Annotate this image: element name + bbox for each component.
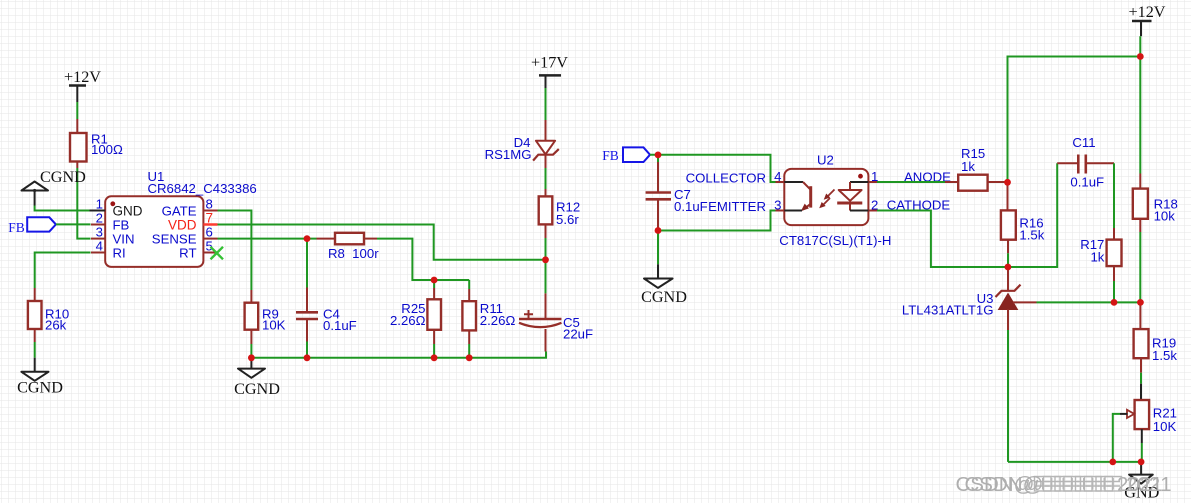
svg-text:0.1uF: 0.1uF: [674, 199, 708, 214]
node junction R18/R19: [1137, 299, 1144, 306]
wire FB to collector/C7: [650, 155, 776, 182]
wire C11 to R17: [1113, 163, 1115, 228]
svg-text:4: 4: [96, 239, 103, 254]
LED inside U2: [837, 182, 868, 211]
U1 pin 6 SENSE: [152, 225, 218, 247]
transistor Q inside U2: [784, 182, 810, 211]
ground rail wire (left section): [251, 352, 546, 358]
wire R12 to node: [545, 238, 547, 260]
ground rail wire (right section): [1008, 461, 1141, 463]
node junction VDD/R12/C5: [542, 256, 549, 263]
svg-text:CGND: CGND: [641, 288, 687, 306]
U2 pin 3 EMITTER: [708, 197, 784, 214]
resistor R19: [1134, 302, 1178, 372]
svg-text:1.5k: 1.5k: [1019, 228, 1044, 243]
svg-text:2.26Ω: 2.26Ω: [480, 313, 516, 328]
svg-text:22uF: 22uF: [563, 327, 593, 342]
svg-text:5: 5: [206, 239, 213, 254]
resistor R15: [945, 146, 1008, 191]
svg-text:CT817C(SL)(T1)-H: CT817C(SL)(T1)-H: [779, 233, 891, 248]
U1 pin 4 RI: [91, 239, 126, 261]
svg-text:CGND: CGND: [234, 380, 280, 398]
svg-text:100Ω: 100Ω: [91, 142, 123, 157]
svg-text:2.26Ω: 2.26Ω: [390, 313, 426, 328]
svg-text:C11: C11: [1072, 135, 1095, 150]
svg-text:8: 8: [206, 197, 213, 212]
wire +12V to R18: [1139, 57, 1141, 174]
svg-text:RI: RI: [113, 245, 126, 260]
U1 pin 3 VIN: [91, 225, 134, 247]
ground CGND (under C7): [641, 264, 687, 306]
wire R8 to R25/R11: [377, 239, 469, 280]
wire C7 to CGND: [657, 231, 659, 265]
resistor R12: [539, 189, 581, 238]
svg-text:1k: 1k: [1090, 250, 1104, 265]
wire ANODE to R15: [877, 181, 945, 183]
resistor R16: [1001, 182, 1045, 253]
svg-text:GND: GND: [113, 203, 143, 218]
svg-text:7: 7: [206, 211, 214, 226]
capacitor C11: [1057, 135, 1114, 190]
power +17V: [531, 54, 568, 89]
node junction wiper/rail: [1109, 459, 1116, 466]
ground CGND (bottom middle): [234, 358, 280, 398]
svg-text:1: 1: [96, 197, 103, 212]
wire CATHODE to R16 node: [877, 163, 1057, 267]
svg-text:0.1uF: 0.1uF: [323, 318, 357, 333]
svg-text:CSDN@: CSDN@: [965, 473, 1044, 496]
wire R21 bottom: [1141, 429, 1143, 443]
wire U3 ref to R17/R19: [1037, 301, 1141, 303]
svg-text:+17V: +17V: [531, 54, 568, 72]
wire R10 to CGND: [34, 342, 36, 358]
node junction R16 bottom: [1005, 264, 1012, 271]
capacitor C4: [296, 239, 357, 342]
light arrows inside U2: [819, 190, 834, 209]
svg-text:FB: FB: [113, 217, 130, 232]
svg-text:EMITTER: EMITTER: [708, 199, 766, 214]
resistor R10: [28, 288, 69, 342]
U1 pin 7 VDD: [168, 211, 218, 233]
svg-text:26k: 26k: [45, 317, 67, 332]
svg-text:10k: 10k: [1154, 209, 1176, 224]
ground GND (bottom right): [1124, 462, 1159, 502]
svg-text:0.1uF: 0.1uF: [1070, 175, 1104, 190]
node junction R25 top: [431, 277, 438, 284]
resistor R18: [1133, 174, 1178, 233]
node junction R15/R16/+12V: [1004, 179, 1011, 186]
net flag FB (right): [602, 147, 650, 163]
U1 pin 2 FB: [91, 211, 130, 233]
svg-text:RT: RT: [179, 245, 196, 260]
U1 pin 1 GND: [91, 197, 143, 219]
resistor R9: [245, 290, 286, 344]
svg-text:3: 3: [774, 197, 781, 212]
U2 pin 2 CATHODE: [868, 197, 950, 212]
wire VDD to node: [218, 225, 546, 260]
watermark: [956, 473, 1172, 496]
svg-text:+12V: +12V: [1128, 3, 1165, 21]
svg-text:LTL431ATLT1G: LTL431ATLT1G: [902, 303, 994, 318]
capacitor C7: [646, 155, 708, 231]
ground CGND (top-left): [22, 168, 87, 206]
resistor R17: [1080, 228, 1121, 281]
svg-text:6: 6: [206, 225, 213, 240]
node junction C7/emitter: [655, 227, 662, 234]
svg-text:VIN: VIN: [113, 231, 135, 246]
wire +12V to R1: [76, 102, 78, 119]
svg-text:3: 3: [96, 225, 103, 240]
wire R9 to ground rail: [250, 344, 252, 358]
power +12V (left): [64, 68, 101, 102]
net flag FB (left): [8, 217, 56, 235]
node junction FB/C7: [655, 152, 662, 159]
ground CGND (bottom left): [17, 358, 63, 397]
optocoupler U2 body: [779, 153, 891, 248]
svg-text:R8 100r: R8 100r: [328, 246, 379, 261]
wire R19 to R21: [1140, 373, 1142, 384]
svg-text:GATE: GATE: [162, 203, 197, 218]
node junction R21/rail: [1138, 459, 1145, 466]
wire FB to U1 pin2: [56, 223, 91, 225]
wire +12V rail: [1008, 36, 1141, 182]
resistor R25: [390, 280, 441, 344]
svg-text:4: 4: [774, 169, 781, 184]
resistor R11: [462, 280, 515, 344]
wire R21 wiper: [1113, 414, 1120, 462]
U2 pin 1 ANODE: [868, 169, 951, 185]
wire CGND to U1 pin1: [35, 206, 90, 211]
svg-text:10K: 10K: [262, 317, 286, 332]
svg-text:VDD: VDD: [168, 217, 197, 232]
svg-text:5.6r: 5.6r: [556, 212, 579, 227]
svg-text:FB: FB: [8, 220, 25, 235]
diode D4 RS1MG: [485, 120, 559, 168]
svg-text:1k: 1k: [961, 159, 975, 174]
U1 pin 5 RT with no-connect X: [179, 239, 223, 261]
resistor R1: [70, 119, 123, 168]
svg-text:RS1MG: RS1MG: [485, 147, 532, 162]
wire +17V to D4: [545, 88, 547, 120]
U1 pin 8 GATE: [162, 197, 218, 219]
svg-text:2: 2: [96, 211, 103, 226]
svg-text:1.5k: 1.5k: [1152, 348, 1177, 363]
svg-text:2021: 2021: [1126, 473, 1172, 496]
node junction +12V: [1137, 53, 1144, 60]
U2 pin 4 COLLECTOR: [686, 169, 785, 186]
wire C4 to ground rail: [306, 342, 308, 358]
svg-text:SENSE: SENSE: [152, 231, 197, 246]
wire R1 to VIN: [77, 168, 90, 239]
svg-text:FB: FB: [602, 148, 619, 163]
svg-text:U2: U2: [817, 153, 834, 168]
resistor R8: [317, 233, 380, 261]
IC U1 CR6842 body: [105, 169, 257, 267]
wire RI to R10: [35, 253, 91, 289]
svg-text:10K: 10K: [1153, 419, 1177, 434]
power +12V (right): [1128, 3, 1165, 36]
svg-text:CGND: CGND: [17, 379, 63, 397]
svg-text:COLLECTOR: COLLECTOR: [686, 171, 766, 186]
wire D4 to R12: [545, 168, 547, 189]
wire U3 anode down: [1007, 330, 1009, 462]
wire GATE to R9: [218, 211, 252, 291]
svg-text:CR6842_C433386: CR6842_C433386: [148, 181, 257, 196]
potentiometer R21: [1127, 400, 1177, 434]
svg-text:CGND: CGND: [40, 168, 86, 186]
node junction R17 bottom: [1111, 299, 1118, 306]
node junction at C4/R8: [304, 235, 311, 242]
wire emitter to C7 node: [658, 211, 776, 231]
wire SENSE row: [218, 238, 317, 240]
shunt regulator U3 LTL431: [902, 267, 1037, 330]
svg-text:+12V: +12V: [64, 68, 101, 86]
capacitor C5 (polarized): [519, 260, 593, 352]
node junctions on rail: [248, 354, 255, 361]
